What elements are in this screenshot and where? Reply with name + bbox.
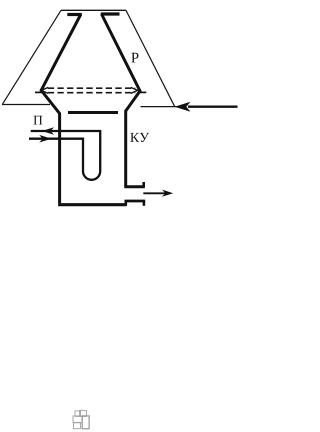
faint logo rect 5	[74, 422, 81, 428]
dashed line right converging tip	[131, 87, 138, 93]
product out arrow head (pointing left, upper pipe)	[42, 127, 54, 135]
reactor R top flange bar right	[101, 12, 120, 15]
outlet channel top lip	[124, 185, 144, 188]
faint logo rect 2	[80, 410, 87, 416]
outer cone casing left side	[3, 10, 62, 104]
reactor R right wall and vessel right wall	[102, 14, 141, 187]
vessel bottom	[58, 203, 126, 206]
dashed line left converging tip	[41, 87, 48, 93]
dashed level line upper row	[48, 87, 136, 89]
reactor R top flange bar left	[67, 13, 82, 16]
label КУ letter У	[140, 133, 149, 142]
outlet flow arrow head (pointing right)	[162, 190, 173, 197]
label П	[33, 116, 42, 125]
feed in arrow head (pointing right, lower pipe)	[39, 135, 51, 143]
outlet flow arrow shaft	[143, 192, 166, 194]
faint logo rect 4	[82, 416, 89, 429]
outlet channel bottom riser	[125, 201, 128, 206]
label Р	[131, 53, 138, 63]
outer cone casing right side	[126, 10, 175, 106]
right wall apex stub	[138, 91, 146, 93]
casing base line right segment	[141, 106, 179, 108]
left wall apex stub	[35, 91, 42, 93]
product pipe: upper run, right U branch, U bend, left U branch, lower run	[29, 131, 100, 180]
inlet arrow head (pointing left)	[175, 102, 191, 112]
reactor R left wall and vessel left wall	[41, 15, 80, 204]
faint logo rect 3	[73, 416, 82, 423]
dashed level line lower row	[48, 92, 136, 94]
casing base line left segment	[2, 104, 50, 106]
internal baffle bar	[68, 111, 118, 114]
outlet top lip end tick	[142, 182, 145, 188]
inlet arrow shaft (bold, from right edge)	[188, 106, 238, 108]
outlet bottom lip end tick	[143, 200, 146, 206]
faint logo rect 1	[75, 411, 81, 417]
label КУ letter К	[130, 133, 139, 142]
outlet channel bottom lip	[125, 200, 146, 203]
outer cone casing top edge	[61, 9, 126, 11]
